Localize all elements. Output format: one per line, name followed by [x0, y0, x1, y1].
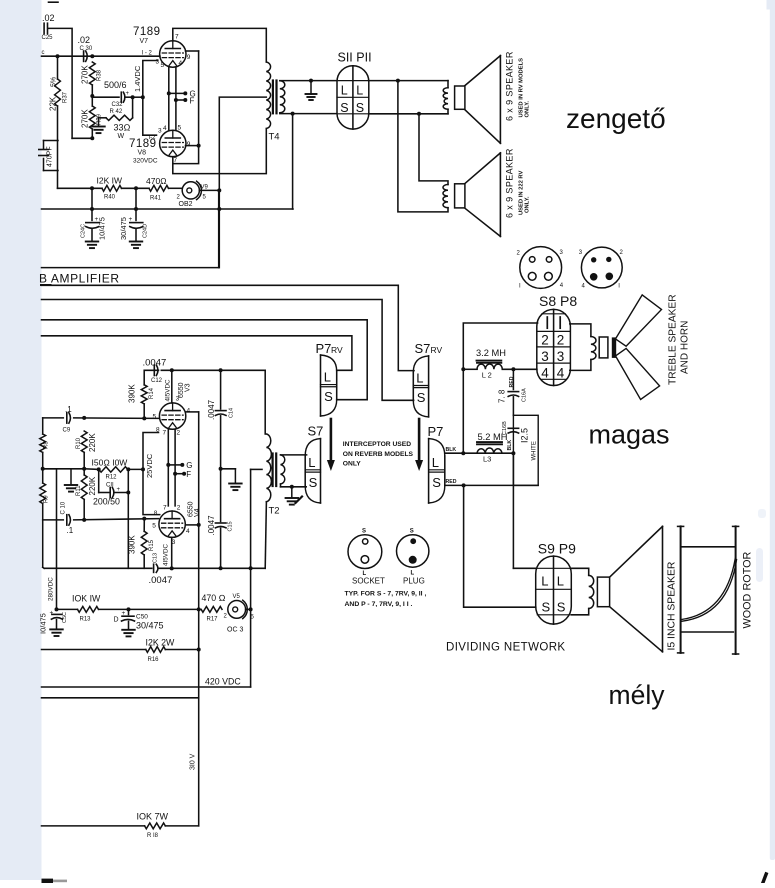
svg-text:WHITE: WHITE: [532, 441, 538, 460]
svg-text:S: S: [432, 475, 441, 490]
transformer T4 secondary: [280, 79, 337, 116]
svg-text:7189: 7189: [133, 26, 161, 38]
transformer T4 core: [273, 81, 277, 114]
node G upper: [167, 90, 196, 99]
label 7189 V8: [129, 138, 158, 165]
svg-text:INTERCEPTOR USED: INTERCEPTOR USED: [343, 441, 411, 448]
left blue margin: [0, 0, 42, 880]
woofer driver: [597, 577, 609, 607]
resistor R16 12K2W: [42, 647, 199, 663]
svg-text:S: S: [417, 390, 426, 405]
svg-text:.02: .02: [78, 35, 91, 45]
svg-text:5: 5: [178, 125, 182, 132]
svg-text:270K: 270K: [81, 65, 90, 84]
cathode lines V7-V8: [169, 67, 176, 130]
label 10/475 C5C: [39, 613, 48, 634]
scan mark bottom-left: [42, 879, 68, 883]
svg-text:ONLY.: ONLY.: [525, 101, 531, 118]
connector SII PII: [337, 51, 372, 130]
label wood rotor: [742, 552, 754, 629]
svg-text:4: 4: [186, 528, 190, 535]
ground at C5C: [50, 629, 63, 636]
node G lower: [166, 461, 192, 470]
wire T2 centre tap: [251, 468, 262, 470]
capacitor C32 500/6: [92, 80, 134, 115]
svg-text:V8: V8: [138, 150, 147, 157]
svg-text:R41: R41: [150, 196, 162, 202]
socket S8 face: [517, 247, 564, 290]
pen mark near S7: [296, 497, 303, 504]
wire OB2 to node: [199, 188, 221, 192]
wire S9P9 S feed: [464, 485, 536, 607]
wire SIIPII L to speakers: [369, 79, 448, 83]
svg-text:I2K IW: I2K IW: [97, 176, 123, 186]
svg-text:5.2 MH: 5.2 MH: [478, 432, 508, 442]
node NFB wire y56: [42, 50, 161, 58]
svg-text:PLUG: PLUG: [403, 577, 425, 586]
svg-text:7: 7: [163, 505, 167, 512]
resistor R13 10K1W: [57, 607, 199, 623]
transformer T4 primary: [266, 62, 279, 143]
svg-text:c: c: [42, 50, 45, 56]
V4 pin labels: [152, 505, 190, 546]
wire net2 to S7RV S: [42, 300, 414, 401]
wire lower bus: [42, 697, 199, 699]
svg-text:.0047: .0047: [149, 575, 173, 586]
svg-text:V5: V5: [233, 594, 241, 600]
svg-text:R37: R37: [63, 91, 69, 103]
svg-text:ONLY.: ONLY.: [525, 196, 531, 213]
svg-text:C14: C14: [229, 408, 235, 418]
svg-text:470PF: 470PF: [47, 146, 54, 167]
label 6550 V4: [188, 501, 201, 517]
svg-text:3: 3: [557, 349, 565, 364]
svg-text:TYP. FOR S - 7, 7RV, 9, II ,: TYP. FOR S - 7, 7RV, 9, II ,: [345, 591, 427, 598]
svg-text:zengető: zengető: [566, 103, 666, 134]
svg-text:S: S: [309, 475, 318, 490]
resistor R12 150ohm: [84, 467, 130, 489]
svg-text:C32: C32: [112, 102, 124, 108]
svg-text:RV: RV: [331, 345, 343, 355]
capacitor C14 .0047: [207, 370, 235, 471]
tube V9 OB2: [177, 181, 209, 208]
legend text: [345, 591, 427, 609]
svg-text:S8 P8: S8 P8: [539, 293, 577, 309]
resistor R39 270K: [81, 96, 103, 140]
capacitor C30 (.02): [78, 35, 93, 61]
tube V7 7189: [160, 41, 186, 67]
svg-text:7: 7: [175, 34, 179, 41]
wire V4 pin3: [163, 537, 172, 568]
tube V4 6550: [159, 511, 185, 537]
svg-text:2: 2: [177, 430, 181, 437]
treble horn wings: [616, 295, 662, 400]
svg-text:9: 9: [187, 54, 191, 61]
svg-text:T4: T4: [269, 132, 280, 143]
svg-text:22K: 22K: [49, 96, 58, 111]
svg-text:4: 4: [557, 365, 565, 380]
note interceptor: [343, 441, 414, 468]
svg-text:S: S: [362, 529, 366, 535]
svg-text:5%: 5%: [51, 77, 58, 87]
rotor right edge: [733, 526, 739, 654]
svg-text:220K: 220K: [88, 476, 97, 495]
connector S9P9: [536, 541, 576, 625]
svg-text:270K: 270K: [81, 109, 90, 128]
svg-text:R12: R12: [106, 475, 118, 481]
svg-text:3.2 MH: 3.2 MH: [476, 348, 506, 358]
resistor R18 10K7W: [42, 823, 199, 839]
svg-text:W: W: [118, 133, 125, 140]
label 310V: [190, 753, 197, 770]
svg-text:3: 3: [156, 59, 160, 66]
svg-text:4I5VDC: 4I5VDC: [164, 379, 171, 402]
svg-text:6 x 9 SPEAKER: 6 x 9 SPEAKER: [505, 148, 515, 218]
svg-text:IOK 7W: IOK 7W: [137, 812, 169, 822]
long vertical plate rail: [197, 412, 201, 826]
inductor L3 5.2MH: [477, 432, 513, 464]
svg-text:mély: mély: [609, 680, 666, 710]
label zengeto: [566, 103, 666, 134]
svg-text:S7: S7: [415, 341, 431, 356]
legend socket: [348, 529, 385, 586]
svg-text:ONLY: ONLY: [343, 461, 362, 468]
svg-text:C9: C9: [63, 428, 71, 434]
woofer bracket coil: [571, 568, 593, 615]
svg-text:AND P - 7, 7RV, 9, I I .: AND P - 7, 7RV, 9, I I .: [345, 601, 413, 608]
label mely: [609, 680, 666, 710]
svg-text:I0/475: I0/475: [39, 613, 48, 634]
svg-text:6 x 9 SPEAKER: 6 x 9 SPEAKER: [505, 51, 515, 121]
svg-text:P7: P7: [316, 341, 332, 356]
cut component top edge: [49, 1, 59, 3]
svg-text:7: 7: [163, 430, 167, 437]
wire V8 plate to T4 bottom: [173, 129, 266, 174]
label 1.4VDC: [133, 65, 142, 92]
capacitor C11 200/50: [93, 469, 130, 506]
bottom bus wire: [44, 566, 265, 570]
treble labels: [668, 294, 691, 385]
upper box border: [42, 190, 219, 267]
svg-text:F: F: [186, 470, 191, 479]
svg-text:L: L: [416, 370, 423, 385]
capacitor C25 (.02): [42, 13, 55, 41]
svg-text:C24D: C24D: [143, 224, 149, 238]
capacitor C12 .0047: [143, 358, 167, 385]
svg-text:BLK: BLK: [446, 447, 457, 453]
svg-text:RED: RED: [446, 479, 457, 485]
label 12K 2W: [146, 638, 176, 648]
svg-text:magas: magas: [589, 420, 670, 450]
wire R39 bottom: [72, 137, 92, 139]
wire V3 pin3: [164, 370, 179, 403]
scan mark bottom-right: [763, 874, 766, 883]
node F lower: [173, 470, 191, 479]
svg-text:L3: L3: [483, 455, 491, 464]
resistor R37 22K 5%: [49, 56, 69, 188]
cathode lines V3-V4: [168, 429, 175, 506]
svg-text:C50: C50: [136, 614, 148, 621]
label 420 VDC: [205, 677, 241, 687]
svg-text:R11: R11: [76, 485, 82, 496]
svg-text:I5 INCH SPEAKER: I5 INCH SPEAKER: [667, 561, 678, 650]
svg-text:ON REVERB MODELS: ON REVERB MODELS: [343, 451, 414, 458]
wire V3 pin4: [186, 411, 199, 413]
node F upper: [174, 97, 195, 106]
svg-text:R39: R39: [97, 113, 103, 125]
svg-text:7. 8: 7. 8: [498, 389, 507, 403]
svg-text:L: L: [308, 455, 315, 470]
svg-text:1.4VDC: 1.4VDC: [133, 65, 142, 92]
svg-text:470 Ω: 470 Ω: [202, 593, 226, 603]
svg-text:30/475: 30/475: [136, 621, 164, 631]
svg-text:4: 4: [541, 365, 549, 380]
svg-text:C24C: C24C: [81, 224, 87, 238]
svg-text:S7: S7: [308, 424, 324, 439]
svg-text:R 42: R 42: [110, 109, 123, 115]
speaker 1 voice coil: [443, 81, 448, 114]
wire T2 sec bottom: [281, 484, 307, 489]
svg-text:F: F: [190, 97, 195, 106]
capacitor C16B: [502, 421, 519, 435]
grid bracket V7-V8: [133, 61, 158, 136]
svg-text:I2.5: I2.5: [520, 428, 530, 443]
svg-text:S: S: [542, 600, 551, 615]
label magas: [589, 420, 670, 450]
svg-text:ROTOR: ROTOR: [742, 552, 754, 591]
svg-text:3: 3: [541, 349, 549, 364]
wire C11 R12 to bus: [127, 469, 129, 568]
label 15 inch speaker: [667, 561, 678, 650]
svg-text:5: 5: [152, 522, 156, 529]
svg-text:420 VDC: 420 VDC: [205, 677, 241, 687]
wire plate row V3: [43, 416, 159, 421]
svg-text:470Ω: 470Ω: [146, 176, 167, 186]
svg-text:L: L: [541, 573, 548, 588]
label 470ohm R17: [202, 593, 226, 603]
svg-text:5: 5: [161, 62, 165, 69]
wire net3 to P7RV S: [42, 320, 368, 400]
svg-text:L: L: [557, 573, 564, 588]
svg-text:IOK IW: IOK IW: [72, 594, 101, 604]
svg-text:2: 2: [557, 333, 565, 348]
svg-text:TREBLE SPEAKER: TREBLE SPEAKER: [668, 294, 679, 385]
svg-text:390K: 390K: [128, 384, 137, 403]
inductor L2 3.2MH: [463, 348, 537, 380]
connector S7: [305, 424, 323, 504]
svg-text:10/475: 10/475: [98, 217, 107, 240]
left rail R8 R9: [40, 418, 50, 567]
blue sliver near rotor: [756, 509, 766, 582]
resistor R42 33 ohm: [99, 97, 133, 140]
ground at R42: [92, 127, 105, 134]
svg-text:AND HORN: AND HORN: [680, 321, 691, 374]
ground at C24C: [86, 242, 99, 249]
svg-text:280VDC: 280VDC: [48, 577, 55, 601]
resistor R38 270K: [81, 62, 103, 98]
svg-text:V4: V4: [194, 508, 201, 517]
transformer T2 secondary: [269, 455, 285, 517]
speaker 1 labels: [505, 51, 531, 121]
svg-text:2: 2: [177, 505, 181, 512]
svg-text:.02: .02: [42, 13, 55, 23]
capacitor C13 .0047: [149, 553, 173, 586]
svg-text:R13: R13: [80, 617, 92, 623]
connector S8P8: [537, 293, 578, 386]
svg-text:C13: C13: [153, 553, 159, 563]
treble driver: [599, 337, 616, 358]
wire SIIPII S to speakers: [369, 112, 448, 116]
svg-text:4: 4: [187, 408, 191, 415]
svg-text:R16: R16: [148, 657, 160, 663]
svg-text:C15: C15: [228, 521, 234, 531]
ground at C24D: [130, 242, 143, 249]
svg-text:V9: V9: [201, 185, 209, 191]
wire net4 to P7RV L: [42, 336, 352, 371]
svg-text:S: S: [356, 101, 364, 115]
arrow below S7RV: [415, 419, 423, 471]
wire V4 input row: [43, 517, 159, 521]
svg-text:OB2: OB2: [179, 201, 193, 208]
wire V3 plate row: [161, 368, 265, 372]
speaker 2 labels: [505, 148, 531, 218]
wire bias row: [43, 468, 84, 470]
wire RED net: [445, 479, 538, 487]
rotor scoop curve: [682, 559, 737, 622]
svg-text:C12: C12: [151, 378, 163, 384]
svg-text:DIVIDING NETWORK: DIVIDING NETWORK: [446, 642, 566, 654]
svg-text:3I0 V: 3I0 V: [190, 753, 197, 770]
wire T2 sec top to S7: [281, 454, 307, 456]
svg-text:390K: 390K: [128, 535, 137, 554]
svg-text:.0047: .0047: [207, 399, 216, 420]
wire T4 sec to bus: [292, 114, 294, 209]
svg-text:500/6: 500/6: [104, 80, 127, 90]
svg-text:R38: R38: [97, 69, 103, 81]
speaker 1 6x9: [455, 56, 501, 144]
resistor R40 12K 1W: [58, 176, 150, 201]
V8 pin labels: [149, 125, 191, 165]
wire V4 pin4: [185, 524, 198, 526]
wire BLK net: [445, 447, 516, 455]
label RED rotated: [509, 376, 515, 387]
svg-text:8: 8: [154, 510, 158, 517]
label 25VDC: [145, 453, 154, 478]
V7 pin labels: [142, 34, 191, 70]
svg-text:2: 2: [541, 333, 549, 348]
svg-text:+: +: [50, 610, 54, 617]
svg-text:I-2: I-2: [149, 135, 157, 141]
svg-text:200/50: 200/50: [93, 497, 120, 507]
speaker 2 voice coil: [443, 185, 448, 208]
svg-text:R9: R9: [44, 495, 50, 503]
tube V3 6550: [159, 403, 185, 429]
tube V5 OC3: [227, 594, 255, 634]
ground mid-left: [65, 469, 78, 492]
legend plug: [397, 529, 429, 586]
left rail join: [43, 567, 45, 568]
svg-text:8: 8: [156, 427, 160, 434]
svg-text:SOCKET: SOCKET: [352, 577, 385, 586]
svg-text:5: 5: [153, 414, 157, 421]
rotor top bar: [682, 546, 734, 548]
svg-text:R40: R40: [104, 195, 116, 201]
rotor bottom bar: [682, 631, 733, 633]
svg-text:I50Ω I0W: I50Ω I0W: [92, 458, 128, 468]
resistor R41 470ohm: [146, 176, 182, 202]
svg-text:C 10: C 10: [61, 501, 67, 514]
svg-text:C5C: C5C: [62, 612, 68, 623]
svg-text:.0047: .0047: [207, 515, 216, 536]
ground mid C14 C15: [221, 469, 242, 490]
transformer T2 core: [273, 454, 277, 487]
resistor box 12.5 WHITE: [513, 415, 538, 485]
svg-text:.1: .1: [67, 526, 74, 535]
svg-text:WOOD: WOOD: [742, 594, 754, 629]
svg-text:4: 4: [179, 60, 183, 67]
resistor R15 390K: [128, 519, 155, 569]
ground at C50: [122, 630, 135, 637]
svg-text:BLK: BLK: [507, 440, 513, 451]
svg-text:3: 3: [158, 128, 162, 135]
wire C25 to corner: [48, 28, 72, 138]
tube V8 7189: [160, 130, 186, 156]
ground at T4 secondary: [306, 81, 317, 100]
resistor R10 220K: [76, 431, 97, 475]
svg-text:R10: R10: [76, 437, 82, 449]
svg-text:R15: R15: [149, 539, 155, 551]
svg-text:OC 3: OC 3: [227, 627, 243, 634]
svg-text:V7: V7: [140, 38, 149, 45]
svg-text:L: L: [324, 370, 331, 385]
svg-text:S: S: [410, 529, 414, 535]
ground at T2 secondary: [286, 487, 299, 505]
arrow below P7RV: [327, 419, 335, 471]
wire T4 centre tap: [219, 97, 266, 268]
capacitor C24C 10/475: [81, 188, 107, 241]
capacitor C24D 30/475: [119, 188, 149, 241]
wire S8P8 row1 feed: [461, 323, 537, 453]
svg-text:R14: R14: [149, 387, 155, 399]
svg-text:I2K 2W: I2K 2W: [146, 638, 176, 648]
resistor R17 470: [201, 607, 227, 623]
label 10K 1W: [72, 594, 101, 604]
treble bracket coil: [570, 324, 596, 371]
label 7189 V7: [133, 26, 161, 45]
plug P8 face: [579, 247, 624, 289]
connector P7: [428, 424, 445, 503]
svg-text:I - 2: I - 2: [142, 51, 153, 57]
svg-text:S: S: [340, 101, 348, 115]
svg-text:4: 4: [163, 125, 167, 132]
capacitor C9 .1: [63, 405, 73, 434]
rotor baffle left: [678, 526, 684, 653]
capacitor C5C: [50, 610, 69, 630]
svg-text:C16A: C16A: [522, 388, 528, 402]
svg-text:R8: R8: [44, 441, 50, 449]
svg-text:4I5VDC: 4I5VDC: [163, 543, 170, 566]
svg-text:L: L: [356, 83, 363, 97]
svg-text:R17: R17: [207, 617, 219, 623]
label dividing network: [446, 642, 566, 654]
svg-text:220K: 220K: [88, 433, 97, 452]
svg-text:V3: V3: [185, 383, 192, 392]
svg-text:320VDC: 320VDC: [133, 158, 158, 165]
wire to speaker 2 top: [419, 114, 448, 185]
svg-text:G: G: [186, 461, 192, 470]
svg-text:+: +: [126, 91, 130, 97]
label 150ohm 10W: [92, 458, 128, 468]
